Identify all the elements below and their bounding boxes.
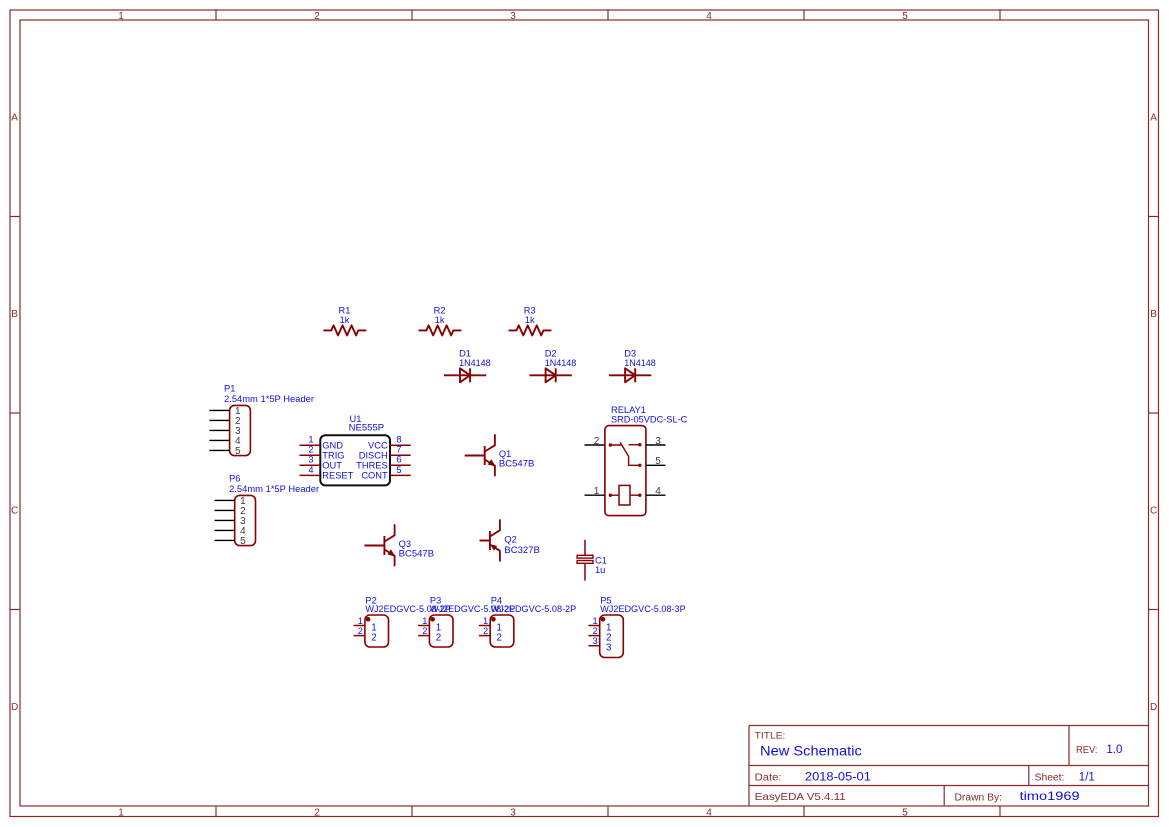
connector P4 (WJ2EDGVC-5.08-2P) xyxy=(490,615,514,647)
svg-text:Q3: Q3 xyxy=(399,539,411,549)
svg-text:2: 2 xyxy=(308,445,313,455)
svg-text:OUT: OUT xyxy=(322,461,342,471)
connector P5 (WJ2EDGVC-5.08-3P) xyxy=(600,615,624,658)
svg-text:3: 3 xyxy=(510,11,516,22)
svg-text:1: 1 xyxy=(593,616,598,626)
diode D2 xyxy=(530,368,572,382)
svg-text:2: 2 xyxy=(497,633,502,644)
svg-text:1u: 1u xyxy=(595,565,605,575)
svg-text:1: 1 xyxy=(308,435,313,445)
RELAY1 pin 2 xyxy=(585,436,606,447)
RELAY1 NO contact xyxy=(629,443,642,446)
svg-text:REV:: REV: xyxy=(1076,745,1098,756)
svg-text:4: 4 xyxy=(706,807,712,818)
svg-text:3: 3 xyxy=(308,455,313,465)
svg-text:2: 2 xyxy=(358,626,363,636)
P1 pin 2 xyxy=(209,416,241,427)
svg-text:3: 3 xyxy=(606,643,612,654)
svg-text:5: 5 xyxy=(240,536,246,547)
P4 pin 1 xyxy=(479,616,502,634)
P5 pin 3 xyxy=(588,636,612,654)
svg-text:2: 2 xyxy=(314,807,320,818)
svg-text:2: 2 xyxy=(594,436,600,447)
svg-text:2.54mm 1*5P Header: 2.54mm 1*5P Header xyxy=(224,394,314,404)
svg-text:TITLE:: TITLE: xyxy=(755,731,786,742)
svg-text:3: 3 xyxy=(593,636,598,646)
svg-text:4: 4 xyxy=(706,11,712,22)
svg-text:Drawn By:: Drawn By: xyxy=(955,792,1003,803)
svg-text:1.0: 1.0 xyxy=(1106,744,1122,756)
svg-text:1: 1 xyxy=(422,616,427,626)
resistor R1 xyxy=(324,325,365,335)
connector P1 (2.54mm 1*5P Header) xyxy=(230,405,251,455)
svg-text:C1: C1 xyxy=(595,556,607,566)
svg-text:1N4148: 1N4148 xyxy=(545,358,577,368)
svg-text:1k: 1k xyxy=(435,315,445,325)
svg-text:Q2: Q2 xyxy=(504,535,516,545)
svg-text:DISCH: DISCH xyxy=(359,451,388,461)
svg-text:Q1: Q1 xyxy=(499,449,511,459)
svg-text:P6: P6 xyxy=(229,474,240,484)
P1 pin 5 xyxy=(209,446,241,457)
svg-text:GND: GND xyxy=(322,441,343,451)
svg-text:3: 3 xyxy=(510,807,516,818)
U1 pin 5 (CONT) xyxy=(361,465,410,481)
svg-text:NE555P: NE555P xyxy=(349,422,384,432)
svg-text:2: 2 xyxy=(314,11,320,22)
P3 pin 1 xyxy=(418,616,441,634)
RELAY1 pin 4 xyxy=(646,486,666,497)
svg-text:1: 1 xyxy=(118,807,124,818)
svg-text:5: 5 xyxy=(396,465,401,475)
svg-text:WJ2EDGVC-5.08-2P: WJ2EDGVC-5.08-2P xyxy=(491,604,577,614)
U1 pin 3 (OUT) xyxy=(300,455,343,471)
svg-text:R1: R1 xyxy=(339,306,351,316)
svg-text:A: A xyxy=(1150,113,1157,124)
svg-text:1: 1 xyxy=(358,616,363,626)
P5 pin 1 xyxy=(588,616,611,634)
capacitor C1 xyxy=(577,540,593,581)
P1 pin 4 xyxy=(209,436,241,447)
svg-text:2: 2 xyxy=(436,633,441,644)
U1 pin 6 (THRES) xyxy=(356,455,411,471)
transistor Q3 (BC547B) xyxy=(364,525,394,566)
svg-text:2: 2 xyxy=(483,626,488,636)
svg-text:BC547B: BC547B xyxy=(399,549,435,559)
RELAY1 NC contact dot xyxy=(638,464,641,467)
svg-text:CONT: CONT xyxy=(361,471,388,481)
svg-text:1/1: 1/1 xyxy=(1079,772,1095,784)
svg-text:1: 1 xyxy=(483,616,488,626)
U1 pin 1 (GND) xyxy=(300,435,344,451)
U1 pin 4 (RESET) xyxy=(300,465,354,481)
resistor R2 xyxy=(419,325,460,335)
svg-text:BC327B: BC327B xyxy=(504,545,540,555)
svg-text:D3: D3 xyxy=(624,348,636,358)
svg-text:D2: D2 xyxy=(545,348,557,358)
P6 pin 1 xyxy=(215,496,247,507)
svg-text:B: B xyxy=(1150,309,1157,320)
svg-text:4: 4 xyxy=(655,486,661,497)
svg-text:1N4148: 1N4148 xyxy=(459,358,491,368)
P3 pin 2 xyxy=(418,626,441,644)
svg-text:THRES: THRES xyxy=(356,461,388,471)
svg-text:4: 4 xyxy=(308,465,313,475)
svg-text:2.54mm 1*5P Header: 2.54mm 1*5P Header xyxy=(229,484,319,494)
svg-text:5: 5 xyxy=(655,456,661,467)
P6 pin 2 xyxy=(215,506,247,517)
svg-text:1k: 1k xyxy=(340,315,350,325)
RELAY1 pin 5 xyxy=(646,456,666,467)
svg-text:D1: D1 xyxy=(459,348,471,358)
diode D3 xyxy=(609,368,651,382)
P2 pin 1 xyxy=(354,616,377,634)
svg-text:5: 5 xyxy=(902,11,908,22)
U1 pin 8 (VCC) xyxy=(368,435,411,451)
svg-text:D: D xyxy=(11,702,18,713)
P2 polarity dot xyxy=(366,617,371,622)
RELAY1 coil xyxy=(609,485,642,505)
RELAY1 pin 3 xyxy=(646,436,666,447)
relay RELAY1 body xyxy=(605,426,646,516)
svg-text:Sheet:: Sheet: xyxy=(1035,773,1065,784)
P5 polarity dot xyxy=(601,617,606,622)
svg-text:RELAY1: RELAY1 xyxy=(611,405,646,415)
U1 pin 7 (DISCH) xyxy=(359,445,411,461)
P6 pin 5 xyxy=(215,536,247,547)
svg-text:R3: R3 xyxy=(524,306,536,316)
svg-text:timo1969: timo1969 xyxy=(1020,789,1080,803)
RELAY1 switch common arm xyxy=(609,443,640,466)
U1 pin 2 (TRIG) xyxy=(300,445,345,461)
P5 pin 2 xyxy=(588,626,611,644)
diode D1 xyxy=(444,368,486,382)
transistor Q2 (BC327B) xyxy=(480,520,500,561)
svg-text:2: 2 xyxy=(371,633,376,644)
RELAY1 pin 1 xyxy=(585,486,606,497)
P4 pin 2 xyxy=(479,626,502,644)
P6 pin 4 xyxy=(215,526,247,537)
svg-text:R2: R2 xyxy=(434,306,446,316)
svg-text:3: 3 xyxy=(655,436,661,447)
svg-text:P1: P1 xyxy=(224,384,235,394)
svg-text:2: 2 xyxy=(593,626,598,636)
svg-text:7: 7 xyxy=(396,445,401,455)
P6 pin 3 xyxy=(215,516,247,527)
IC U1 NE555P body xyxy=(320,435,390,485)
svg-text:C: C xyxy=(1150,505,1157,516)
connector P3 (WJ2EDGVC-5.08-2P) xyxy=(429,615,453,647)
svg-text:8: 8 xyxy=(396,435,401,445)
svg-text:B: B xyxy=(11,309,18,320)
svg-text:Date:: Date: xyxy=(755,772,782,783)
svg-text:2: 2 xyxy=(422,626,427,636)
svg-text:A: A xyxy=(11,113,18,124)
connector P6 (2.54mm 1*5P Header) xyxy=(235,495,256,545)
svg-text:EasyEDA V5.4.11: EasyEDA V5.4.11 xyxy=(755,791,846,803)
svg-text:VCC: VCC xyxy=(368,441,388,451)
svg-text:1: 1 xyxy=(118,11,124,22)
svg-text:1N4148: 1N4148 xyxy=(624,358,656,368)
svg-text:New Schematic: New Schematic xyxy=(760,743,862,758)
svg-text:1k: 1k xyxy=(525,315,535,325)
svg-text:TRIG: TRIG xyxy=(322,451,344,461)
svg-text:C: C xyxy=(11,505,18,516)
svg-text:D: D xyxy=(1150,702,1157,713)
svg-text:WJ2EDGVC-5.08-3P: WJ2EDGVC-5.08-3P xyxy=(600,604,686,614)
P1 pin 1 xyxy=(209,406,241,417)
svg-text:RESET: RESET xyxy=(322,471,353,481)
resistor R3 xyxy=(509,325,550,335)
connector P2 (WJ2EDGVC-5.08-2P) xyxy=(365,615,389,647)
P4 polarity dot xyxy=(491,617,496,622)
svg-text:2018-05-01: 2018-05-01 xyxy=(805,771,871,783)
P1 pin 3 xyxy=(209,426,241,437)
P2 pin 2 xyxy=(354,626,377,644)
P3 polarity dot xyxy=(430,617,435,622)
svg-text:BC547B: BC547B xyxy=(499,459,535,469)
svg-text:6: 6 xyxy=(396,455,401,465)
svg-text:5: 5 xyxy=(902,807,908,818)
svg-text:SRD-05VDC-SL-C: SRD-05VDC-SL-C xyxy=(611,415,688,425)
svg-text:5: 5 xyxy=(235,446,241,457)
svg-text:1: 1 xyxy=(594,486,600,497)
transistor Q1 (BC547B) xyxy=(465,435,495,476)
